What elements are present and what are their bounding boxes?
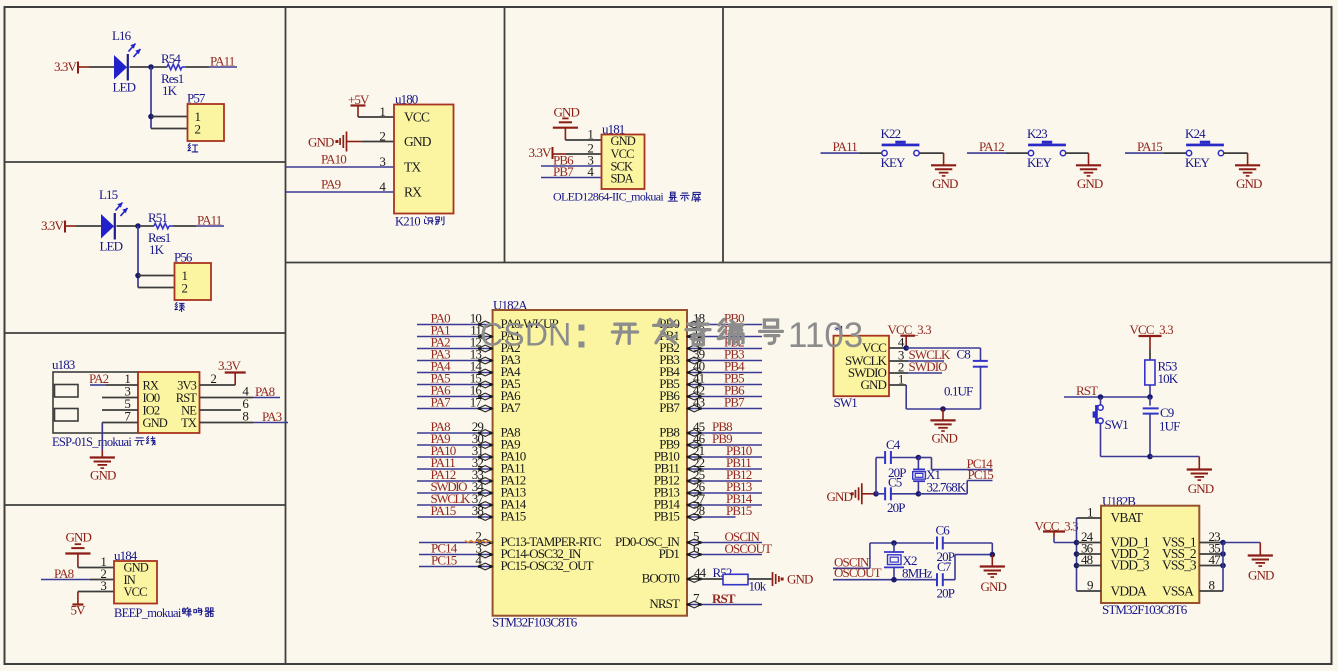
section divider horizontal y=262 (top row) (286, 262, 1333, 264)
net label PA12 wire (967, 139, 1006, 154)
wire ESP pin7 to ground (101, 423, 103, 458)
svg-text:48: 48 (1081, 552, 1093, 567)
U182A left pin 33 PA12 net PA12 (417, 467, 526, 487)
U182A left pin 29 PA8 net PA8 (417, 419, 520, 439)
net label SWCLK (SW1 pin3) (889, 347, 951, 363)
U182B pin 48 VDD_3 (1077, 552, 1150, 573)
LED L16 (112, 28, 141, 95)
wire rail to ground (reset) (1150, 457, 1199, 470)
svg-text:KEY: KEY (1185, 155, 1211, 170)
svg-text:PB15: PB15 (726, 503, 752, 518)
ground symbol (K23) (1076, 165, 1103, 191)
svg-text:38: 38 (472, 503, 484, 518)
svg-text:20P: 20P (887, 500, 905, 515)
svg-text:PA8: PA8 (54, 566, 74, 581)
key SW1 (reset button, vertical) (1093, 405, 1129, 432)
svg-text:1K: 1K (149, 242, 165, 257)
junction VDD_1 (1074, 540, 1080, 546)
wire 3.3V to LED (76, 225, 101, 227)
svg-text:L16: L16 (112, 28, 132, 43)
svg-text:10k: 10k (749, 579, 767, 594)
svg-text:PA2: PA2 (89, 371, 109, 386)
svg-text:GND: GND (554, 105, 580, 120)
svg-text:SWDIO: SWDIO (909, 359, 948, 374)
power port VCC_3.3 (U182B) (1035, 519, 1079, 543)
svg-text:LED: LED (100, 239, 123, 254)
wire VSS vertical (U182B right) (1222, 543, 1224, 592)
svg-text:GND: GND (66, 530, 92, 545)
svg-text:VBAT: VBAT (1111, 510, 1144, 525)
ground symbol (OLED, rotated up) (553, 105, 580, 141)
svg-text:PA10: PA10 (321, 152, 346, 167)
junction X1 top (916, 455, 922, 461)
svg-text:PD1: PD1 (659, 546, 680, 561)
junction VDD_3 (1074, 563, 1080, 569)
section divider vertical x=504 (504, 7, 506, 263)
svg-text:CSDN: CSDN (480, 317, 571, 353)
junction SWD ground node (940, 406, 946, 412)
wire to key K24 (1164, 152, 1186, 154)
junction VSS_3 (1220, 563, 1226, 569)
module u180 K210 (394, 92, 454, 214)
svg-text:SW1: SW1 (834, 395, 858, 410)
power port VCC_3.3 (SW1 pin4) (888, 322, 932, 348)
U182A left pin 31 PA10 net PA10 (417, 443, 526, 463)
junction X1 bottom (916, 491, 922, 497)
svg-text:GND: GND (932, 176, 958, 191)
U182A left pin 2 PC13-TAMPER-RTC (419, 529, 601, 550)
U182A left pin 10 PA0-WKUP net PA0 (417, 311, 559, 331)
key K23 (1027, 126, 1066, 170)
wire LED to node (117, 225, 139, 227)
label K210 recognition (395, 215, 444, 229)
ground symbol (SWD) (930, 420, 957, 445)
U182A left pin 30 PA9 net PA9 (417, 431, 520, 451)
svg-text:5V: 5V (71, 603, 87, 618)
svg-text:R51: R51 (148, 210, 167, 225)
svg-text:2: 2 (379, 129, 385, 144)
svg-text:8: 8 (242, 409, 248, 424)
connector SW1 (SWD) (834, 336, 890, 410)
crystal X1 32.768K (913, 458, 967, 495)
svg-text:PA9: PA9 (321, 177, 341, 192)
net label PA11 and wire (209, 54, 237, 69)
svg-text:ESP-01S_mokuai: ESP-01S_mokuai (52, 435, 132, 449)
U182A right pin 26 PB13 (654, 479, 762, 499)
power port 3.3V (L15 circuit) (41, 218, 76, 233)
wire node down to header (137, 226, 139, 288)
net label OSCIN wire (833, 543, 870, 570)
module u183 designator (52, 357, 75, 372)
label green (175, 302, 185, 311)
U182A right pin 22 PB11 (654, 455, 762, 475)
svg-text:RST: RST (1076, 383, 1098, 398)
svg-text:GND: GND (1077, 176, 1103, 191)
svg-text:3.3V: 3.3V (218, 358, 242, 373)
ground symbol (K24) (1235, 165, 1262, 191)
label BEEP_mokuai buzzer (114, 606, 214, 620)
U182A right pin 46 PB9 (659, 431, 762, 451)
junction node at LED/resistor (135, 223, 141, 229)
SW1 pin 4 wire (889, 335, 906, 350)
net label PA8 (BEEP pin2) (41, 566, 114, 581)
net label SWDIO (SW1 pin2) (889, 359, 947, 375)
svg-text:VCC: VCC (124, 585, 148, 599)
capacitor C7 20P (937, 559, 955, 601)
svg-text:8MHz: 8MHz (902, 566, 933, 581)
svg-text:PB7: PB7 (724, 395, 745, 410)
U182A right pin 41 PB5 (659, 371, 762, 391)
net label PC15 wire (967, 467, 993, 482)
U182A right pin 21 PB10 (654, 443, 762, 463)
wire to header pin 2 (151, 128, 188, 130)
U182B pin 23 VSS_1 (1162, 529, 1223, 550)
svg-text:VCC_3.3: VCC_3.3 (1130, 322, 1174, 337)
SW1 designator mark (834, 323, 842, 337)
header P56 2-pin (174, 250, 211, 301)
section divider horizontal y=162 (left col) (5, 161, 286, 163)
svg-text:1103: 1103 (788, 316, 863, 355)
svg-text:NRST: NRST (649, 596, 680, 611)
svg-text:OSCOUT: OSCOUT (834, 565, 882, 580)
pin 5 wire (102, 396, 138, 411)
ESP module outline graphic (53, 372, 138, 433)
U182A left pin 32 PA11 net PA11 (417, 455, 525, 475)
wire rail to PC14 corner (918, 458, 931, 470)
svg-text:STM32F103C8T6: STM32F103C8T6 (1102, 602, 1188, 617)
svg-text:PA11: PA11 (197, 213, 222, 228)
svg-text:VDD_3: VDD_3 (1111, 558, 1150, 573)
ground symbol (ESP) (90, 458, 116, 483)
wire key K24 to ground (1224, 153, 1248, 165)
svg-text:C7: C7 (937, 559, 952, 574)
svg-text:32.768K: 32.768K (927, 480, 967, 495)
svg-text:KEY: KEY (1027, 155, 1053, 170)
section divider horizontal y=505 (left col) (5, 504, 286, 506)
svg-text:GND: GND (143, 416, 168, 430)
svg-text:GND: GND (90, 468, 116, 483)
IC U182A STM32F103C8T6 body (493, 310, 687, 616)
label STM32F103C8T6 (U182B) (1102, 602, 1188, 617)
power port VCC_3.3 (R53) (1130, 322, 1174, 360)
svg-text:PC15: PC15 (431, 553, 457, 568)
svg-text:3.3V: 3.3V (54, 59, 78, 74)
U182B pin 9 VDDA (1077, 578, 1148, 599)
svg-text:PA15: PA15 (501, 509, 526, 524)
wire gnd to BEEP pin1 (78, 554, 114, 569)
junction node at header pin 1 (148, 114, 154, 120)
U182B pin 36 VDD_2 (1077, 541, 1149, 562)
junction reset gnd rail (1147, 454, 1153, 460)
U182A right pin 40 PB4 (659, 359, 762, 379)
U182A right pin 25 PB12 (654, 467, 762, 487)
wire to header pin 2 (138, 287, 175, 289)
net label PA9 (K210 pin4 RX) (286, 177, 394, 195)
U182B pin 24 VDD_1 (1077, 529, 1149, 550)
U182B pin 35 VSS_2 (1162, 541, 1223, 562)
power ground (K210 pin2) (308, 129, 394, 152)
wire VSS to ground (1223, 543, 1260, 556)
svg-text:20P: 20P (937, 586, 955, 601)
crystal X2 8MHz (884, 543, 933, 581)
junction SW1 VCC node (903, 345, 909, 351)
svg-text:PB7: PB7 (659, 400, 680, 415)
svg-text:PB15: PB15 (654, 509, 680, 524)
svg-text:PA12: PA12 (979, 139, 1004, 154)
net label PA2 on pin 1 (89, 371, 138, 386)
junction VSS_2 (1220, 551, 1226, 557)
U182A right pin 39 PB3 (659, 347, 762, 367)
U182B pin 47 VSS_3 (1162, 552, 1223, 573)
junction RST/R53/C9 (1147, 394, 1153, 400)
LED L15 (99, 187, 128, 254)
svg-text:R54: R54 (161, 51, 181, 66)
ground symbol (BEEP, rotated up) (65, 530, 91, 568)
svg-text:K23: K23 (1027, 126, 1047, 141)
power port 3.3V (OLED pin2) (529, 141, 602, 161)
svg-text:1K: 1K (162, 83, 178, 98)
U182A left pin 3 PC14-OSC32_IN net PC14 (419, 541, 582, 562)
U182A right pin 27 PB14 (654, 491, 762, 511)
U182A right pin 6 PD1 net OSCOUT (659, 541, 772, 562)
U182A left pin 16 PA6 net PA6 (417, 383, 521, 403)
svg-text:OLED12864-IIC_mokuai: OLED12864-IIC_mokuai (553, 190, 664, 204)
junction X1 gnd node (873, 491, 879, 497)
U182A left pin 14 PA4 net PA4 (417, 359, 521, 379)
U182A designator (493, 298, 528, 313)
net label PC14 wire (932, 456, 994, 471)
svg-text:GND: GND (1248, 568, 1274, 583)
svg-text:PA3: PA3 (262, 409, 282, 424)
svg-text:GND: GND (404, 134, 432, 149)
U182A right pin 42 PB6 (659, 383, 762, 403)
wire C6 corner down (991, 543, 993, 555)
svg-text:GND: GND (611, 134, 636, 148)
pin 3 wire (102, 384, 138, 399)
power port 3.3V (ESP pin 2) (200, 358, 246, 386)
resistor R54 Res1 1K (154, 51, 209, 98)
svg-text:1UF: 1UF (1159, 419, 1180, 434)
svg-text:C8: C8 (957, 347, 971, 362)
svg-text:K210: K210 (395, 215, 420, 229)
U182A right pin 44 BOOT0 with resistor R52 10k (642, 565, 772, 594)
resistor R53 10K (1145, 359, 1179, 398)
svg-text:GND: GND (981, 579, 1007, 594)
ESP pin names (143, 379, 198, 431)
svg-text:BOOT0: BOOT0 (642, 571, 680, 586)
svg-text:VCC: VCC (404, 110, 430, 125)
svg-text:2: 2 (210, 371, 216, 386)
svg-text:LED: LED (113, 80, 136, 95)
svg-text:GND: GND (308, 135, 334, 150)
net label OSCOUT wire (833, 565, 937, 580)
U182B pin 8 VSSA (1162, 578, 1223, 599)
section divider vertical x=723 (722, 7, 724, 263)
label OLED12864-IIC_mokuai display (553, 190, 701, 204)
U182B pin 1 VBAT (1077, 505, 1144, 526)
ground symbol (reset) (1187, 470, 1214, 497)
capacitor C5 20P (876, 475, 918, 516)
svg-text:9: 9 (1087, 578, 1093, 593)
key K22 (881, 126, 920, 170)
svg-text:PB7: PB7 (553, 164, 574, 179)
U182A right pin 20 PB2 (659, 335, 762, 355)
svg-text:KEY: KEY (881, 155, 907, 170)
svg-text:3.3V: 3.3V (41, 218, 65, 233)
wire 3.3V to LED (89, 66, 114, 68)
U182A right pin 45 PB8 (659, 419, 762, 439)
IC U182B STM32F103C8T6 power pins (1101, 506, 1199, 603)
svg-text:3.3V: 3.3V (529, 145, 553, 160)
svg-text:GND: GND (787, 572, 813, 587)
svg-text:GND: GND (1236, 176, 1262, 191)
svg-text:TX: TX (181, 416, 197, 430)
net label PB7 (OLED pin4 SDA) (541, 164, 602, 179)
svg-text:PA7: PA7 (501, 400, 522, 415)
header P57 2-pin (187, 91, 224, 142)
module u184 BEEP (114, 548, 157, 604)
power ground (BOOT0 pulldown) (773, 572, 813, 587)
resistor R51 Res1 1K (141, 210, 196, 257)
svg-text:GND: GND (861, 377, 887, 392)
U182A left pin 17 PA7 net PA7 (417, 395, 521, 415)
svg-text:C4: C4 (886, 437, 901, 452)
svg-text:TX: TX (404, 160, 421, 175)
svg-text:RST: RST (712, 591, 736, 606)
net label RST wire (1064, 383, 1150, 398)
net label PA10 (K210 pin3 TX) (286, 152, 394, 170)
capacitor C9 1UF (1143, 397, 1180, 457)
section divider horizontal y=333 (left col) (5, 332, 286, 334)
pin 7 wire (102, 409, 138, 424)
junction X2 top (891, 540, 897, 546)
wire VCC node to C8 (906, 347, 980, 349)
wire node down to header (150, 67, 152, 129)
U182A left pin 4 PC15-OSC32_OUT net PC15 (419, 553, 594, 574)
wire key K22 to ground (920, 153, 944, 165)
svg-text:2: 2 (195, 122, 201, 137)
wire C7 to gnd rail (943, 555, 993, 580)
wire RST node down to key SW1 (1100, 397, 1102, 405)
net label PA3 (ESP pin 8) (200, 409, 289, 425)
junction RST/SW1 (1098, 394, 1104, 400)
svg-text:SW1: SW1 (1105, 417, 1129, 432)
U182A left pin 12 PA2 net PA2 (417, 335, 520, 355)
label STM32F103C8T6 (U182A) (492, 615, 578, 630)
junction node at header pin 1 (135, 273, 141, 279)
svg-text:PA7: PA7 (431, 395, 452, 410)
svg-text:PA11: PA11 (210, 54, 235, 69)
ground symbol (K22) (931, 165, 958, 191)
svg-text:PA11: PA11 (833, 139, 858, 154)
net label PA11 and wire (196, 213, 224, 228)
svg-text:PA15: PA15 (1137, 139, 1162, 154)
pin 6 stub (200, 396, 250, 411)
svg-text:VDDA: VDDA (1111, 584, 1148, 599)
svg-text:L15: L15 (99, 187, 118, 202)
svg-text:K24: K24 (1185, 126, 1206, 141)
wire key K23 to ground (1066, 153, 1089, 165)
U182A right pin 5 PD0-OSC_IN net OSCIN (615, 529, 762, 550)
label red (188, 143, 198, 152)
capacitor C4 20P (876, 437, 918, 480)
wire rail to PC15 corner (918, 481, 967, 494)
wire to key K22 (860, 152, 882, 154)
wire gnd node up to C4 rail (875, 458, 877, 494)
net label PA8 (ESP pin 4) (200, 384, 281, 400)
svg-text:GND: GND (1188, 481, 1214, 496)
svg-text:P57: P57 (187, 91, 206, 106)
power port +5V (K210 pin1) (348, 92, 394, 119)
svg-text:BEEP_mokuai: BEEP_mokuai (114, 606, 182, 620)
U182B designator (1102, 494, 1136, 509)
wire to ground (X2) (991, 555, 993, 567)
wire to header pin 1 (151, 116, 188, 118)
net label PB6 (OLED pin3 SCK) (541, 153, 602, 168)
svg-text:VSS_3: VSS_3 (1162, 558, 1197, 573)
U182A left pin 34 PA13 net SWDIO (417, 479, 526, 499)
power ground (X1) (827, 483, 877, 504)
section divider vertical x=285 (285, 7, 287, 664)
U182A left pin 13 PA3 net PA3 (417, 347, 520, 367)
svg-text:VSSA: VSSA (1162, 584, 1194, 599)
module u181 OLED (602, 122, 645, 190)
U182A left pin 38 PA15 net PA15 (417, 503, 526, 523)
svg-text:C5: C5 (888, 475, 902, 490)
wire to ground (SWD) (942, 409, 944, 420)
ESP module body (yellow) (138, 372, 200, 433)
U182A right pin 28 PB15 (654, 503, 752, 523)
svg-text:PC15: PC15 (968, 467, 994, 482)
svg-text:PA8: PA8 (255, 384, 275, 399)
capacitor C8 0.1UF (944, 347, 988, 410)
svg-text:1: 1 (379, 104, 385, 119)
svg-text:1: 1 (587, 127, 593, 142)
net label PA11 wire (821, 139, 860, 154)
wire key to bottom rail (1101, 424, 1151, 457)
svg-text:10K: 10K (1158, 371, 1179, 386)
capacitor C6 20P (936, 523, 993, 565)
junction node at LED/resistor (148, 64, 154, 70)
U182A right pin 19 PB1 (659, 323, 762, 343)
wire LED to node (130, 66, 152, 68)
power port 5V (BEEP pin3) (71, 578, 115, 618)
svg-text:2: 2 (182, 281, 188, 296)
U182A left pin 15 PA5 net PA5 (417, 371, 520, 391)
svg-text:RX: RX (404, 185, 422, 200)
svg-text:K22: K22 (881, 126, 901, 141)
svg-text:0.1UF: 0.1UF (944, 384, 973, 399)
svg-text:47: 47 (1209, 552, 1222, 567)
ground symbol (X2) (980, 567, 1007, 595)
U182A left pin 37 PA14 net SWCLK (417, 491, 527, 511)
wire VCC vertical (U182B left) (1076, 518, 1078, 591)
U182A left pin 11 PA1 net PA1 (417, 323, 520, 343)
svg-text:C6: C6 (936, 523, 951, 538)
junction VSS_1 (1220, 540, 1226, 546)
svg-text:1: 1 (1087, 505, 1093, 520)
svg-text:GND: GND (827, 489, 853, 504)
svg-text:3: 3 (379, 154, 385, 169)
svg-text:8: 8 (1209, 578, 1215, 593)
SW1 pin 1 wire to ground rail (889, 372, 981, 410)
power port 3.3V (L16 circuit) (54, 59, 89, 74)
junction X2 gnd node (990, 552, 996, 558)
svg-text:P56: P56 (174, 250, 193, 265)
svg-text:PA15: PA15 (431, 503, 456, 518)
wire to header pin 1 (138, 275, 175, 277)
svg-text:SDA: SDA (611, 172, 634, 186)
